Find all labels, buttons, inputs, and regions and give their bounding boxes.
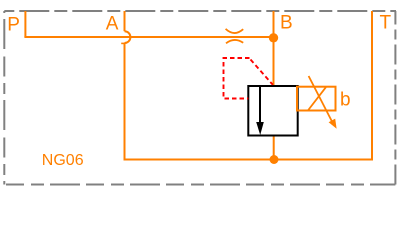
svg-text:b: b (340, 90, 351, 111)
svg-text:NG06: NG06 (42, 152, 84, 169)
wire valve outlet drop (273, 136, 275, 160)
wire A line lower (125, 11, 373, 160)
svg-text:B: B (280, 13, 293, 34)
pilot line (dashed red) (224, 58, 273, 99)
adjustment arrow (309, 76, 333, 123)
spring cross stroke (308, 87, 326, 110)
svg-text:A: A (106, 14, 119, 35)
node B junction (upper) (269, 33, 278, 42)
node lower junction (270, 155, 279, 164)
wire A port line upper (124, 11, 126, 31)
valve flow path line (259, 86, 261, 123)
orifice (restrictor) in P line (226, 29, 244, 33)
relief valve V1 body (248, 86, 297, 136)
svg-text:T: T (380, 13, 392, 34)
wire A line crossing hop (125, 31, 131, 43)
wire P port drop (24, 11, 26, 37)
svg-text:P: P (7, 15, 20, 36)
plate boundary (dashed frame) (4, 11, 396, 185)
adjustable spring box S1 (297, 87, 336, 111)
valve flow arrow (256, 122, 264, 135)
wire P to B junction (main horizontal) (24, 36, 273, 38)
wire B port to valve inlet (273, 11, 275, 86)
